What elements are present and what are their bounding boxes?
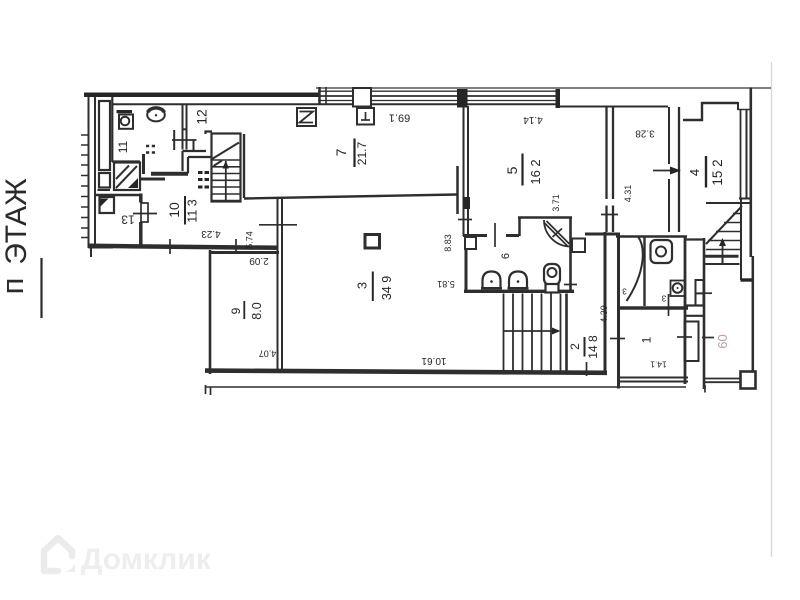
stairs diagonal [212, 143, 239, 160]
svg-text:11 3: 11 3 [186, 199, 200, 222]
room4 right window post [737, 102, 739, 110]
junction walls rooms 11/10 [142, 154, 145, 174]
room10 bottom wall [89, 246, 279, 248]
wall right of stairs [243, 134, 245, 198]
svg-text:3: 3 [355, 282, 370, 289]
stairs up arrow [223, 161, 230, 169]
svg-text:5.74: 5.74 [245, 231, 255, 249]
left wall bottom corner [89, 244, 114, 249]
svg-text:34 9: 34 9 [380, 276, 394, 300]
lower thin line [205, 386, 686, 388]
room11/12 divider [182, 104, 184, 150]
room5 bottom wall [463, 234, 487, 237]
room13 top wall [96, 194, 141, 196]
sink room11 [119, 115, 133, 129]
floor label [0, 178, 33, 294]
room 11 bottom step [112, 160, 140, 162]
roomsA/B top wall [616, 235, 687, 238]
svg-text:69.1: 69.1 [389, 112, 410, 124]
top-right step wall [683, 103, 738, 120]
svg-text:4.31: 4.31 [623, 185, 633, 203]
window pier white box [353, 88, 371, 107]
left outer wall [88, 97, 90, 248]
window band lines top [318, 90, 558, 92]
Z-box electro panel [297, 108, 316, 126]
corridor/room4 wall [668, 107, 670, 164]
cells row below landing [704, 263, 740, 265]
corridor wall [703, 238, 706, 389]
room9 label [243, 301, 245, 319]
rooms5/4 divider wall [605, 108, 607, 233]
room5 label [521, 154, 523, 186]
room6 sinks [483, 272, 501, 288]
room5 left wall [463, 106, 465, 236]
svg-text:15 2: 15 2 [710, 159, 725, 185]
svg-text:4.39: 4.39 [599, 305, 609, 323]
svg-text:10.61: 10.61 [421, 355, 446, 366]
svg-text:п: п [0, 278, 30, 295]
svg-text:14 8: 14 8 [586, 335, 600, 359]
window start post [318, 87, 321, 105]
room1 ticks [610, 338, 625, 340]
svg-text:16 2: 16 2 [528, 159, 543, 184]
stair top-left step wall [206, 132, 213, 135]
window end post [556, 89, 561, 108]
bathroom dark lintel [117, 110, 133, 113]
room3 left wall [277, 198, 279, 372]
svg-text:5.81: 5.81 [437, 279, 455, 289]
svg-text:5: 5 [504, 166, 520, 174]
room 11 left wall [111, 97, 113, 162]
svg-text:11: 11 [116, 140, 130, 153]
watermark logo [44, 538, 75, 572]
door dashes room11 [146, 145, 157, 147]
room3 label [372, 272, 374, 302]
room2 right wall [604, 232, 607, 372]
stairs lower treads [504, 294, 561, 372]
pilaster rect 1 [99, 101, 110, 170]
dark bar right [741, 278, 755, 281]
top outer thin line [316, 87, 771, 89]
svg-text:9: 9 [229, 307, 243, 314]
room13/10 wall [139, 194, 143, 203]
svg-text:4.23: 4.23 [201, 228, 221, 239]
svg-text:8.83: 8.83 [443, 234, 453, 252]
svg-text:4.07: 4.07 [259, 349, 277, 359]
right outer wall [749, 88, 752, 258]
tick room11/12 [172, 139, 197, 141]
shower box room11 [114, 163, 140, 191]
svg-text:1: 1 [640, 336, 654, 343]
room6 door arc [544, 220, 571, 247]
svg-text:2: 2 [568, 343, 582, 350]
room7/5 duct wall [456, 166, 459, 214]
roomA bottom/room1 top [618, 306, 688, 309]
svg-text:14.1: 14.1 [650, 360, 667, 370]
hatch ticks [81, 135, 88, 238]
roomA right wall [643, 237, 645, 307]
page edge [771, 62, 773, 557]
room1 left wall [617, 234, 620, 389]
svg-text:2.09: 2.09 [249, 255, 269, 266]
top thick wall [84, 93, 319, 98]
svg-text:Домклик: Домклик [81, 543, 212, 576]
room6 toilet [544, 264, 560, 285]
right window band verticals [740, 109, 742, 198]
roomB toilet [651, 240, 673, 263]
svg-text:ЭТАЖ: ЭТАЖ [0, 178, 33, 265]
toilet room11 [147, 108, 165, 121]
main bottom wall [205, 371, 607, 373]
svg-text:13: 13 [121, 213, 135, 227]
stairs upper-left box [212, 134, 241, 202]
room1 walls [684, 237, 687, 384]
room13 fixture box [100, 197, 115, 213]
svg-text:8.0: 8.0 [250, 302, 264, 319]
stairs right box [706, 202, 750, 204]
column room3 [365, 235, 380, 249]
tick room6 left [564, 284, 577, 286]
svg-text:4: 4 [687, 169, 702, 176]
svg-text:3.71: 3.71 [551, 194, 561, 212]
arrow room4 [653, 170, 671, 172]
stairs treads [212, 160, 240, 201]
svg-text:3.28: 3.28 [635, 128, 655, 139]
svg-text:6: 6 [500, 253, 512, 259]
right wall lower [752, 256, 755, 372]
stairs stringer [225, 161, 227, 201]
vent box [357, 108, 374, 125]
roomA curve [627, 237, 643, 302]
room6 box [518, 218, 521, 237]
landing thick line [704, 255, 739, 258]
svg-text:4.14: 4.14 [523, 114, 543, 125]
svg-text:10: 10 [166, 202, 182, 218]
room7 label [353, 139, 355, 168]
roomB sink [671, 281, 685, 297]
svg-text:3: 3 [622, 287, 627, 297]
svg-text:7: 7 [333, 148, 349, 156]
room3 top wall [244, 195, 457, 199]
window dark post mid [457, 89, 468, 108]
room9 walls [209, 250, 212, 374]
svg-text:12: 12 [194, 109, 210, 125]
room10 label [184, 196, 186, 225]
room2 label [584, 337, 586, 357]
room 11 right wall [173, 130, 175, 150]
pilaster rect 2 [99, 173, 110, 188]
svg-text:21.7: 21.7 [355, 141, 369, 165]
duct boxes [696, 280, 704, 306]
svg-text:60: 60 [715, 334, 730, 348]
room4 label [705, 156, 707, 188]
stairs left dashes [198, 171, 209, 189]
svg-text:3: 3 [661, 294, 666, 304]
